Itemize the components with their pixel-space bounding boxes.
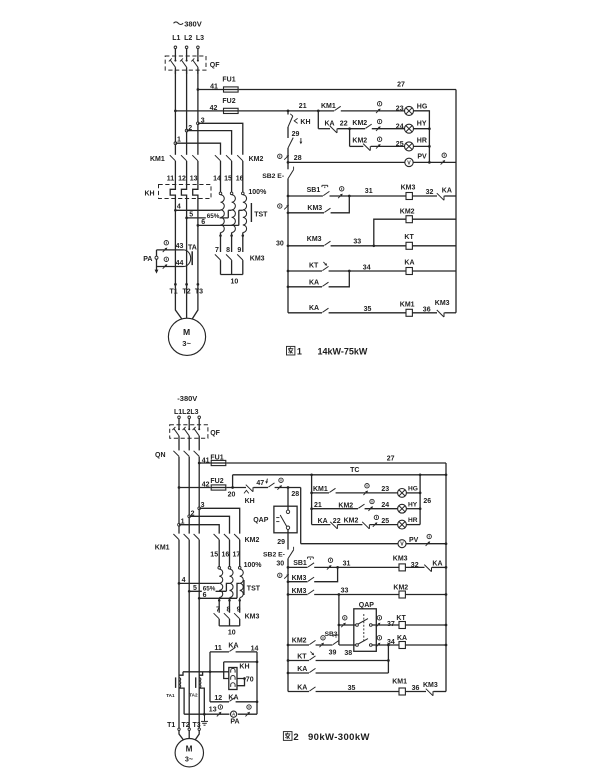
QF pole 1 tick xyxy=(169,58,172,61)
label 12 fig2 xyxy=(214,695,222,702)
svg-text:TST: TST xyxy=(254,211,268,218)
PA branch vertical xyxy=(156,250,158,271)
node r38 rail xyxy=(445,644,448,647)
contact KT NO xyxy=(322,266,328,270)
coil KT fig2 xyxy=(399,622,405,629)
contact KM3 NC r35 fig2 xyxy=(426,689,433,696)
label 9 fig2 xyxy=(237,606,241,613)
contact KM2 lamp label xyxy=(338,502,353,509)
node lamprow1 xyxy=(310,492,313,495)
contact SB2 NC fig2 xyxy=(288,547,294,559)
label 33 xyxy=(353,238,361,245)
svg-text:TA: TA xyxy=(188,244,197,251)
KM2 pole 2 xyxy=(226,155,232,161)
wire 5 xyxy=(187,217,229,219)
label 44 xyxy=(176,260,184,267)
wire TC bottom xyxy=(233,474,446,476)
QAP link dashed xyxy=(363,614,365,642)
svg-text:KM1: KM1 xyxy=(155,545,170,552)
svg-text:M: M xyxy=(183,327,190,337)
svg-text:A: A xyxy=(232,712,235,717)
label 9 xyxy=(237,247,241,254)
wire 5 riser fig2 xyxy=(226,583,229,591)
label 14 fig2 xyxy=(251,646,259,653)
contact KM3 NC fig2 label xyxy=(423,682,438,689)
selector QAP box xyxy=(274,506,297,533)
wire heater top loop xyxy=(224,661,257,663)
terminal T2 fig2 xyxy=(188,728,190,730)
svg-text:10: 10 xyxy=(231,279,239,286)
svg-text:KA: KA xyxy=(442,187,452,194)
label 12 xyxy=(178,175,186,182)
label L3 xyxy=(196,35,204,42)
wire KA bypass row xyxy=(210,651,229,653)
contact KA label r2 xyxy=(325,120,335,127)
label T3 fig2 xyxy=(193,722,201,729)
node KA row xyxy=(287,285,290,288)
KM2 fig2 pole 3 out xyxy=(239,540,241,567)
svg-text:HY: HY xyxy=(408,501,418,508)
node lamp right top xyxy=(419,473,422,476)
svg-text:-380V: -380V xyxy=(177,394,197,403)
wire KM3 fig2 row b xyxy=(314,567,337,581)
contactor KM1 label fig2 xyxy=(155,545,170,552)
wire L1 drop xyxy=(174,49,176,61)
wire T2 vertical xyxy=(186,199,188,285)
KM2 fig2 pole 2 xyxy=(224,534,230,540)
wire KM2 branch xyxy=(374,219,406,246)
wire 4 fig2 xyxy=(179,582,219,584)
contact KA sh fig2 label xyxy=(297,666,307,673)
TST winding 2 xyxy=(232,195,236,233)
label 39 xyxy=(329,650,337,657)
KM3 pole 2 out xyxy=(231,260,233,274)
wire row30 c xyxy=(412,245,456,247)
contactor coil KM1 xyxy=(406,309,412,316)
label FU1 fig2 xyxy=(210,455,223,462)
KM1 pole 2 xyxy=(181,155,187,161)
wire TC bottom drop xyxy=(232,475,234,488)
KM3 fig2 pole 1 out xyxy=(218,619,220,626)
CT TA1 winding xyxy=(179,678,181,688)
caption fig1 xyxy=(287,346,368,356)
svg-text:1: 1 xyxy=(177,136,181,143)
label 22 xyxy=(340,120,348,127)
timer coil KT label xyxy=(404,234,414,241)
svg-text:32: 32 xyxy=(426,189,434,196)
svg-text:T3: T3 xyxy=(195,288,203,295)
contact KM3 selfhold fig2 NO xyxy=(308,577,314,581)
label QN xyxy=(155,452,166,459)
label 29 xyxy=(292,131,300,138)
label 22 fig2 xyxy=(333,518,341,525)
TST winding 2 bottom terminal xyxy=(230,234,233,237)
node 28 junction xyxy=(287,161,290,164)
svg-text:HR: HR xyxy=(417,138,427,145)
svg-text:24: 24 xyxy=(396,123,404,130)
svg-text:KM2: KM2 xyxy=(352,120,367,127)
label 27 xyxy=(397,82,405,89)
QF pole 2 out xyxy=(186,67,188,74)
svg-text:25: 25 xyxy=(381,518,389,525)
contact KT fig2 arrow xyxy=(310,652,314,656)
label 7 fig2 xyxy=(216,606,220,613)
KM1 pole 3 out xyxy=(197,161,199,185)
label T3 xyxy=(195,288,203,295)
node 33a fig2 xyxy=(287,593,290,596)
svg-text:KM2: KM2 xyxy=(344,518,359,525)
label 5 xyxy=(189,211,193,218)
TST2 winding 2 bottom terminal xyxy=(228,599,231,602)
KM1 pole 1 xyxy=(170,155,176,161)
contact KM3 selfhold label xyxy=(307,205,322,212)
label 25 xyxy=(396,141,404,148)
wire r35 fig2 b xyxy=(316,691,399,693)
label 15 xyxy=(224,175,232,182)
wire SB1 row d xyxy=(444,195,456,197)
wire T3 vertical fig2 xyxy=(198,598,200,728)
label 38 xyxy=(344,650,352,657)
svg-text:34: 34 xyxy=(363,264,371,271)
TA loop xyxy=(184,250,191,267)
connector row3 xyxy=(376,137,382,149)
KM3 pole 2 xyxy=(226,254,232,260)
wire 44 xyxy=(157,266,184,268)
node 42 fig2 xyxy=(178,486,181,489)
svg-text:16: 16 xyxy=(222,552,230,559)
wire selfhold vertical fig2 xyxy=(387,645,389,673)
svg-text:9: 9 xyxy=(237,606,241,613)
release arrow xyxy=(300,138,303,144)
label 27 fig2 xyxy=(387,455,395,462)
svg-text:SB1: SB1 xyxy=(307,187,321,194)
motor M2 circle xyxy=(175,739,203,767)
fuse FU1 fig2 xyxy=(211,460,226,465)
svg-text:7: 7 xyxy=(215,247,219,254)
KM2 pole 1 out xyxy=(220,161,222,192)
label FU1 xyxy=(222,77,235,84)
label HG xyxy=(417,104,428,111)
wire control vertical d xyxy=(287,179,289,196)
release arrow fig2 xyxy=(265,479,268,484)
CT TA1 secondary bottom xyxy=(179,688,184,714)
svg-text:23: 23 xyxy=(381,486,389,493)
label 23 xyxy=(396,106,404,113)
label 1 fig2 xyxy=(181,518,185,525)
svg-text:HG: HG xyxy=(408,486,418,493)
svg-text:14: 14 xyxy=(213,175,221,182)
svg-text:KM2: KM2 xyxy=(352,138,367,145)
wire left vertical fig2 xyxy=(287,567,289,691)
wire r33 b xyxy=(314,594,399,596)
wire r37 c xyxy=(405,624,446,626)
svg-text:TC: TC xyxy=(350,467,359,474)
node 5 junction xyxy=(185,217,188,220)
svg-text:KM3: KM3 xyxy=(245,614,260,621)
wire r38 c xyxy=(339,644,356,646)
wire 47 fig2 xyxy=(253,487,268,489)
node 42 junction xyxy=(174,110,177,113)
wire r33 c xyxy=(405,594,446,596)
label L1L2L3 fig2 xyxy=(174,409,199,416)
TST winding 1 top terminal xyxy=(219,192,222,195)
wire 2 fig2 xyxy=(189,516,229,533)
svg-text:PV: PV xyxy=(409,537,419,544)
wire 6 tap xyxy=(239,209,243,211)
QN pole 2 out xyxy=(188,457,190,534)
svg-text:FU1: FU1 xyxy=(222,77,235,84)
svg-text:27: 27 xyxy=(387,455,395,462)
node CT bus junction xyxy=(209,670,212,673)
voltmeter PV xyxy=(405,158,413,166)
svg-text:L2: L2 xyxy=(184,35,192,42)
wire 70 link xyxy=(237,679,245,686)
wire 42 fig2 xyxy=(179,487,211,489)
wire r38 e xyxy=(405,644,446,646)
svg-text:V: V xyxy=(407,160,411,166)
svg-text:22: 22 xyxy=(340,120,348,127)
contact KA r35 fig2 label xyxy=(297,685,307,692)
wire row1 a xyxy=(341,110,430,112)
TST winding 1 bottom terminal xyxy=(219,234,222,237)
QAP ch2 terminal r xyxy=(369,644,372,647)
contact SB2 NC xyxy=(288,167,294,179)
coil KT fig2 label xyxy=(396,615,406,622)
label 4 xyxy=(177,203,181,210)
CT TA2 core bar xyxy=(195,677,197,688)
wire SB1 fig2 c xyxy=(405,566,424,568)
wire heater top drop xyxy=(223,662,225,672)
fuse FU1 xyxy=(224,87,239,92)
label 36 xyxy=(423,307,431,314)
wire KA row a xyxy=(288,286,322,288)
TST winding 3 lead xyxy=(242,233,244,253)
node PV subrail xyxy=(428,161,431,164)
KM3 fig2 pole 2 xyxy=(224,613,230,619)
label HG fig2 xyxy=(408,486,418,493)
QF2 pole 1 out xyxy=(178,436,180,451)
node 5 fig2 xyxy=(188,590,191,593)
wire row2 drop xyxy=(317,111,319,129)
label T1 fig2 xyxy=(167,722,175,729)
label SB1 xyxy=(307,187,321,194)
label 100% xyxy=(248,189,267,196)
QN pole 1 out xyxy=(178,457,180,534)
wire PV row fig2 b xyxy=(406,543,446,545)
connector vertical fig2 xyxy=(278,573,289,579)
wire SB1 row b xyxy=(330,195,406,197)
node subrail r3 xyxy=(428,145,431,148)
wire 3 xyxy=(198,123,243,155)
label 25 fig2 xyxy=(381,518,389,525)
connector on wire 43 xyxy=(163,241,169,253)
ground symbol xyxy=(201,714,208,725)
svg-text:KM3: KM3 xyxy=(250,256,265,263)
svg-text:KH: KH xyxy=(145,190,155,197)
PA ground arrow xyxy=(155,270,159,274)
svg-text:30: 30 xyxy=(276,561,284,568)
svg-text:36: 36 xyxy=(412,685,420,692)
label 33 fig2 xyxy=(341,588,349,595)
label 34 fig2 xyxy=(387,639,395,646)
wire PV row b xyxy=(413,161,456,163)
svg-text:25: 25 xyxy=(396,141,404,148)
motor lead 2 xyxy=(186,284,188,318)
contactor coil KM3 xyxy=(406,193,412,200)
KM1 pole 3 xyxy=(192,155,198,161)
wire 5 riser xyxy=(227,210,229,218)
wire r38 d xyxy=(372,644,399,646)
svg-text:KM3: KM3 xyxy=(435,300,450,307)
label 65% xyxy=(206,213,220,220)
wire row2 b xyxy=(337,128,365,130)
wire 6 riser fig2 xyxy=(237,583,240,598)
contact KM2 label r2 xyxy=(352,120,367,127)
label TST fig2 xyxy=(247,585,261,592)
wire T1 vertical fig2 xyxy=(178,583,180,728)
wire lamp right subrail xyxy=(419,475,421,525)
svg-text:44: 44 xyxy=(176,260,184,267)
TST2 winding 1 bottom terminal xyxy=(218,599,221,602)
connector r38 r xyxy=(376,636,382,648)
TST2 winding 3 top terminal xyxy=(238,567,241,570)
QF pole 2 blade xyxy=(181,60,186,67)
wire 6 fig2 xyxy=(199,597,237,599)
contact KA r35 label xyxy=(309,305,319,312)
contact KM2 lamp NO xyxy=(358,504,364,508)
svg-text:21: 21 xyxy=(299,103,307,110)
QAP terminal top xyxy=(286,510,289,513)
terminal L3 xyxy=(197,46,200,49)
label QAP xyxy=(253,517,269,524)
heater element 3 xyxy=(231,683,235,687)
node SB1 rail fig2 xyxy=(445,566,448,569)
wire KA row fig2 xyxy=(288,672,309,674)
svg-text:31: 31 xyxy=(365,188,373,195)
wire 13 xyxy=(184,713,229,715)
TST2 winding 1 top terminal xyxy=(218,567,221,570)
label 21 xyxy=(299,103,307,110)
svg-text:KM3: KM3 xyxy=(307,236,322,243)
svg-text:HY: HY xyxy=(417,121,427,128)
KM1 pole 2 out xyxy=(186,161,188,185)
wire SB1 fig2 a xyxy=(288,566,308,568)
label 65% fig2 xyxy=(202,585,216,592)
wire L1 drop fig2 xyxy=(178,419,180,430)
contact KM2b lamp NC xyxy=(362,522,369,529)
QF2 pole 2 pivot xyxy=(188,428,190,430)
label 28 fig2 xyxy=(291,491,299,498)
KM1 fig2 pole 1 out xyxy=(178,540,180,584)
thermal marker KH fig2 xyxy=(244,490,249,493)
label 35 fig2 xyxy=(348,685,356,692)
svg-text:FU2: FU2 xyxy=(222,98,235,105)
label 14 xyxy=(213,175,221,182)
KM1 pole 1 out xyxy=(174,161,176,185)
label 13 xyxy=(190,175,198,182)
label 29 fig2 xyxy=(277,539,285,546)
svg-text:HG: HG xyxy=(417,104,428,111)
node lamprow1 r xyxy=(419,492,422,495)
heater element 2 xyxy=(231,676,235,680)
contact KT fig2 label xyxy=(297,654,307,661)
contact KA selfhold NO xyxy=(322,282,328,286)
label 3 xyxy=(201,118,205,125)
wire row35 b xyxy=(329,312,406,314)
fuse FU2 fig2 xyxy=(211,485,226,490)
svg-text:29: 29 xyxy=(292,131,300,138)
wire KA row b xyxy=(329,271,350,287)
contact KH NC xyxy=(288,114,293,127)
KM3 fig2 pole 2 out xyxy=(229,619,231,626)
wire row34 a xyxy=(288,270,322,272)
switch QN pole 1 xyxy=(173,451,179,457)
wire heater feed xyxy=(224,672,229,679)
QAP ch1 blade xyxy=(358,619,368,624)
contact KA lamp label xyxy=(318,518,328,525)
label 16 xyxy=(236,175,244,182)
terminal L3 fig2 xyxy=(198,416,201,419)
wire KM3 row b xyxy=(331,196,350,213)
svg-text:QF: QF xyxy=(210,62,220,69)
label 42 fig2 xyxy=(202,482,210,489)
connector r37 l xyxy=(341,616,347,628)
QF pole 1 blade xyxy=(170,60,175,67)
label TA xyxy=(188,244,197,251)
contact SB1 NO xyxy=(323,191,329,195)
label ~380V xyxy=(174,19,202,28)
KH heater element 2 xyxy=(181,185,186,199)
contact KA lamp NC xyxy=(330,522,337,529)
label 15 xyxy=(210,552,218,559)
node r38 l fig2 xyxy=(287,644,290,647)
KH heater element 3 xyxy=(193,185,198,199)
node 21 junction xyxy=(287,110,290,113)
svg-text:29: 29 xyxy=(277,539,285,546)
node ground junction xyxy=(203,713,206,716)
wire L1 vertical xyxy=(174,70,176,155)
TST winding 1 xyxy=(221,195,225,233)
svg-text:KA: KA xyxy=(309,305,319,312)
svg-text:TST: TST xyxy=(247,585,261,592)
svg-text:32: 32 xyxy=(411,562,419,569)
svg-text:9: 9 xyxy=(237,247,241,254)
wire control vertical c xyxy=(287,148,289,169)
svg-text:33: 33 xyxy=(341,588,349,595)
wire control vertical top xyxy=(287,111,289,115)
label PA xyxy=(143,256,152,263)
wire row34 b xyxy=(329,270,406,272)
label 31 xyxy=(365,188,373,195)
KM1 fig2 pole 2 xyxy=(184,534,190,540)
svg-text:KH: KH xyxy=(245,498,255,505)
contact release xyxy=(288,138,293,148)
KM2 fig2 pole 2 out xyxy=(229,540,231,567)
QF2 pole 3 pivot xyxy=(198,428,200,430)
svg-text:21: 21 xyxy=(314,502,322,509)
label 37 xyxy=(387,621,395,628)
label 34 xyxy=(363,264,371,271)
wire 42 to control xyxy=(239,110,335,112)
wire row3 drop xyxy=(349,129,351,147)
label 6 fig2 xyxy=(203,592,207,599)
wire 5 tap xyxy=(228,209,231,211)
motor M1 label 3~ xyxy=(182,339,191,348)
label HY xyxy=(417,121,427,128)
label 17 xyxy=(233,552,241,559)
svg-text:M: M xyxy=(186,745,193,754)
wire PV row fig2 a xyxy=(301,543,398,545)
